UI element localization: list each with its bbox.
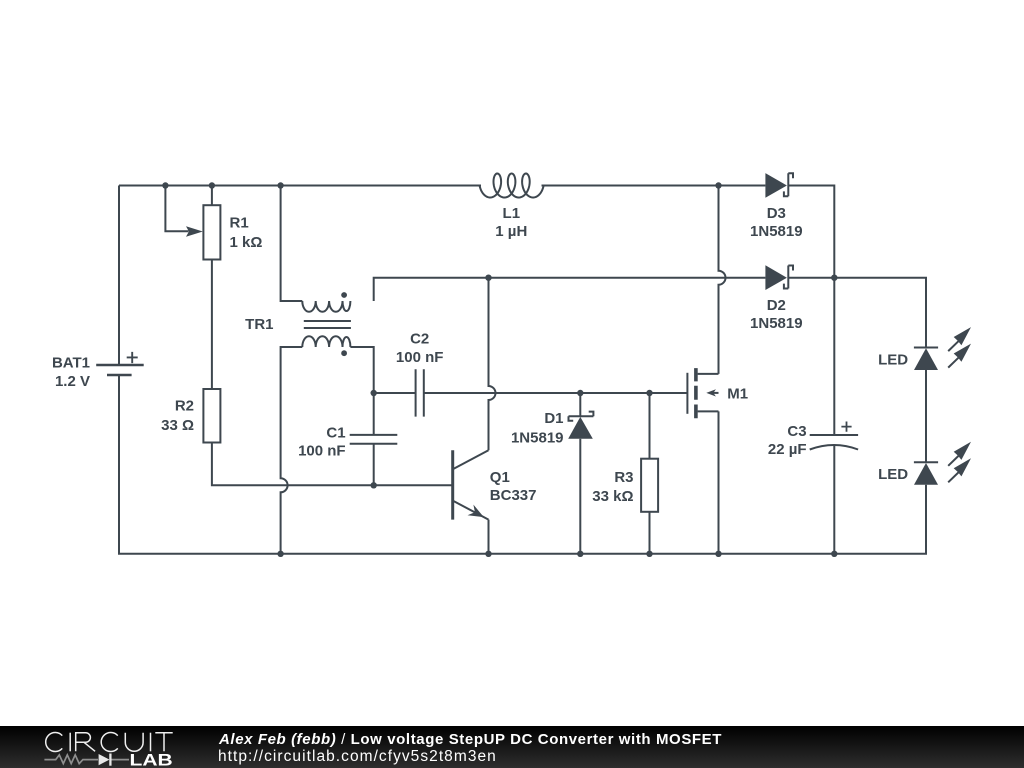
- wire: R1 top lead: [211, 186, 213, 206]
- wire: between LED1 anode and LED2 cathode: [925, 370, 927, 462]
- wire: TR1 secondary right pin down to C2/C1 node: [350, 347, 373, 393]
- resistor R3: [641, 459, 658, 512]
- svg-text:BAT1: BAT1: [52, 354, 90, 371]
- svg-text:Q1: Q1: [490, 469, 510, 486]
- capacitor C3 (polarized) top plate: [810, 434, 858, 436]
- svg-text:1.2 V: 1.2 V: [55, 373, 90, 390]
- LED LED2 emission arrows: [948, 442, 971, 483]
- svg-text:1N5819: 1N5819: [750, 315, 803, 332]
- junction: gate row / TR1 secondary and C1: [371, 390, 377, 396]
- svg-text:LAB: LAB: [130, 752, 173, 768]
- transformer TR1 secondary phase dot: [341, 350, 347, 356]
- wire: R3 bottom lead to ground rail: [649, 512, 651, 554]
- battery BAT1: [96, 352, 144, 375]
- LED LED2 triangle: [914, 463, 938, 485]
- wire: MOSFET source down to ground rail: [718, 411, 720, 553]
- wire: battery positive lead up to top rail: [118, 186, 120, 365]
- resistor R1 wiper arrow: [186, 226, 203, 237]
- junction: output node D3/D2: [831, 275, 837, 281]
- junction: top rail / R1 top: [209, 182, 215, 188]
- footer title text: [219, 731, 722, 748]
- diode D3 (schottky, pointing right) triangle: [765, 173, 787, 198]
- mosfet M1 gate line: [686, 373, 688, 414]
- logo letter C: [46, 733, 63, 752]
- transformer TR1 primary winding: [302, 301, 350, 312]
- wire: C3 top lead from output node: [833, 278, 835, 435]
- wire: C3 bottom lead to ground rail: [833, 446, 835, 554]
- LED LED1 cathode bar: [914, 347, 938, 349]
- capacitor C1: [350, 435, 398, 444]
- label D1 name/value: [511, 410, 564, 447]
- junction: ground rail / R3 bottom: [646, 551, 652, 557]
- transistor Q1 base bar: [451, 450, 454, 519]
- wire: vertical from D3 junction down to MOSFET drain, hops over feedback row: [719, 186, 726, 374]
- svg-text:TR1: TR1: [245, 316, 273, 333]
- transformer TR1 primary phase dot: [341, 292, 347, 298]
- svg-text:1 µH: 1 µH: [495, 223, 527, 240]
- resistor R2: [203, 389, 220, 443]
- capacitor C3 curved bottom plate: [810, 445, 858, 450]
- junction: ground rail / C3 bottom: [831, 551, 837, 557]
- logo letter T: [155, 733, 172, 752]
- footer url text: [218, 748, 497, 766]
- label R3 name/value: [592, 469, 633, 505]
- label M1 name: [727, 385, 748, 402]
- capacitor C3 plus sign: [841, 422, 851, 432]
- transformer TR1 core: [304, 321, 351, 328]
- mosfet M1 channel segments: [694, 368, 698, 418]
- junction: top rail / TR1 primary left: [277, 182, 283, 188]
- junction: base row / C1 bottom: [371, 482, 377, 488]
- label L1 name/value: [495, 205, 527, 240]
- svg-text:33 Ω: 33 Ω: [161, 417, 194, 434]
- svg-text:R2: R2: [175, 398, 194, 415]
- junction: ground rail / Q1 emitter: [485, 551, 491, 557]
- svg-text:BC337: BC337: [490, 487, 537, 504]
- capacitor C2: [416, 369, 424, 416]
- label TR1 name: [245, 316, 273, 333]
- mosfet M1 source lead: [698, 410, 719, 412]
- logo letter I: [150, 733, 152, 752]
- wire: base row from R2 bottom to Q1 base: [212, 443, 453, 486]
- label C2 name/value: [396, 330, 444, 366]
- inductor L1: [480, 174, 544, 198]
- logo letter C: [101, 733, 118, 752]
- wire: R1 wiper connection from top rail: [165, 186, 188, 232]
- label C3 name/value: [768, 423, 807, 458]
- wire: gate row from C2 right plate to MOSFET gate: [424, 392, 688, 394]
- resistor R1 (potentiometer body): [203, 205, 220, 259]
- diode D2 (schottky, pointing right) triangle: [765, 265, 787, 290]
- wire: TR1 primary left pin to top rail: [281, 186, 303, 302]
- svg-text:D3: D3: [767, 205, 786, 222]
- wire: gate row node to C2 left plate: [374, 392, 416, 394]
- junction: top rail / MOSFET drain branch: [715, 182, 721, 188]
- svg-text:R1: R1: [230, 215, 249, 232]
- label R1 name/value: [230, 215, 263, 252]
- LED LED1 emission arrows: [948, 327, 971, 368]
- junction: ground rail / MOSFET source: [715, 551, 721, 557]
- wire: feedback winding row, TR1 primary right pin up and right to D2 anode: [374, 278, 766, 301]
- svg-text:D2: D2: [767, 297, 786, 314]
- logo letter I: [69, 733, 71, 752]
- svg-text:M1: M1: [727, 385, 748, 402]
- wire: D1 anode lead down to ground rail: [579, 439, 581, 554]
- wire: Q1 collector vertical up to feedback node, hops over gate row: [489, 278, 496, 451]
- svg-text:100 nF: 100 nF: [396, 349, 444, 366]
- svg-text:100 nF: 100 nF: [298, 443, 346, 460]
- logo squiggle wire with resistor zigzag: [44, 755, 129, 764]
- label LED2 name: [878, 466, 908, 483]
- svg-text:1 kΩ: 1 kΩ: [230, 234, 263, 251]
- wire: top rail from battery to inductor L1: [119, 185, 481, 187]
- diode D1 (schottky, pointing up) triangle: [568, 417, 593, 439]
- wire: R3 top lead from gate row: [649, 393, 651, 459]
- transformer TR1 secondary winding: [302, 336, 350, 347]
- junction: gate row / R3: [646, 390, 652, 396]
- label LED1 name: [878, 351, 908, 368]
- transistor Q1 emitter diagonal: [454, 501, 489, 519]
- mosfet M1 body lead with arrow: [706, 389, 718, 396]
- junction: feedback row / Q1 collector: [485, 275, 491, 281]
- mosfet M1 drain lead: [698, 373, 719, 375]
- diode D2 cathode bar with schottky hooks: [784, 266, 793, 289]
- wire: Q1 emitter lead down to ground rail: [488, 520, 490, 554]
- diode D1 cathode bar with schottky hooks: [569, 412, 594, 421]
- junction: gate row / D1: [577, 390, 583, 396]
- svg-text:LED: LED: [878, 351, 908, 368]
- svg-text:L1: L1: [503, 205, 521, 222]
- wire: C1 top lead: [373, 393, 375, 435]
- footer bar: [0, 726, 1024, 768]
- wire: top rail from L1 to diode D3 anode: [542, 185, 766, 187]
- label R2 name/value: [161, 398, 194, 435]
- svg-text:R3: R3: [614, 469, 633, 486]
- svg-text:1N5819: 1N5819: [511, 430, 564, 447]
- wire: C1 bottom lead to base row: [373, 444, 375, 486]
- wire: battery negative lead down and ground rail across bottom, up to LED2 anode: [119, 375, 926, 554]
- label D3 name/value: [750, 205, 803, 240]
- logo diode symbol: [99, 754, 111, 766]
- svg-text:D1: D1: [544, 410, 563, 427]
- wire: D2 cathode to LED string top corner: [788, 278, 926, 348]
- svg-text:C2: C2: [410, 330, 429, 347]
- label D2 name/value: [750, 297, 803, 332]
- wire: D1 cathode lead from gate row: [579, 393, 581, 416]
- LED LED1 triangle: [914, 348, 938, 370]
- svg-text:1N5819: 1N5819: [750, 223, 803, 240]
- transistor Q1 collector diagonal: [454, 450, 489, 469]
- label C1 name/value: [298, 425, 346, 460]
- CircuitLab logo: [0, 726, 220, 768]
- svg-text:C1: C1: [326, 425, 345, 442]
- svg-text:33 kΩ: 33 kΩ: [592, 488, 633, 505]
- junction: ground rail / TR1 secondary left: [277, 551, 283, 557]
- wire: D3 cathode to right then down to D2 output node: [788, 186, 834, 278]
- logo letter U: [125, 733, 143, 752]
- wire: R1 bottom lead to R2 top: [211, 260, 213, 390]
- wire: TR1 secondary left pin down to ground rail, hops over base row: [281, 347, 303, 554]
- junction: top rail / R1 wiper: [162, 182, 168, 188]
- svg-text:22 µF: 22 µF: [768, 441, 807, 458]
- LED LED2 cathode bar: [914, 461, 938, 463]
- label BAT1 name/value: [52, 354, 90, 390]
- svg-text:C3: C3: [787, 423, 806, 440]
- junction: ground rail / D1 anode: [577, 551, 583, 557]
- label Q1 name/value: [490, 469, 537, 504]
- logo letter R: [76, 733, 95, 752]
- svg-text:LED: LED: [878, 466, 908, 483]
- transistor Q1 emitter arrow: [468, 505, 484, 517]
- diode D3 cathode bar with schottky hooks: [784, 173, 793, 196]
